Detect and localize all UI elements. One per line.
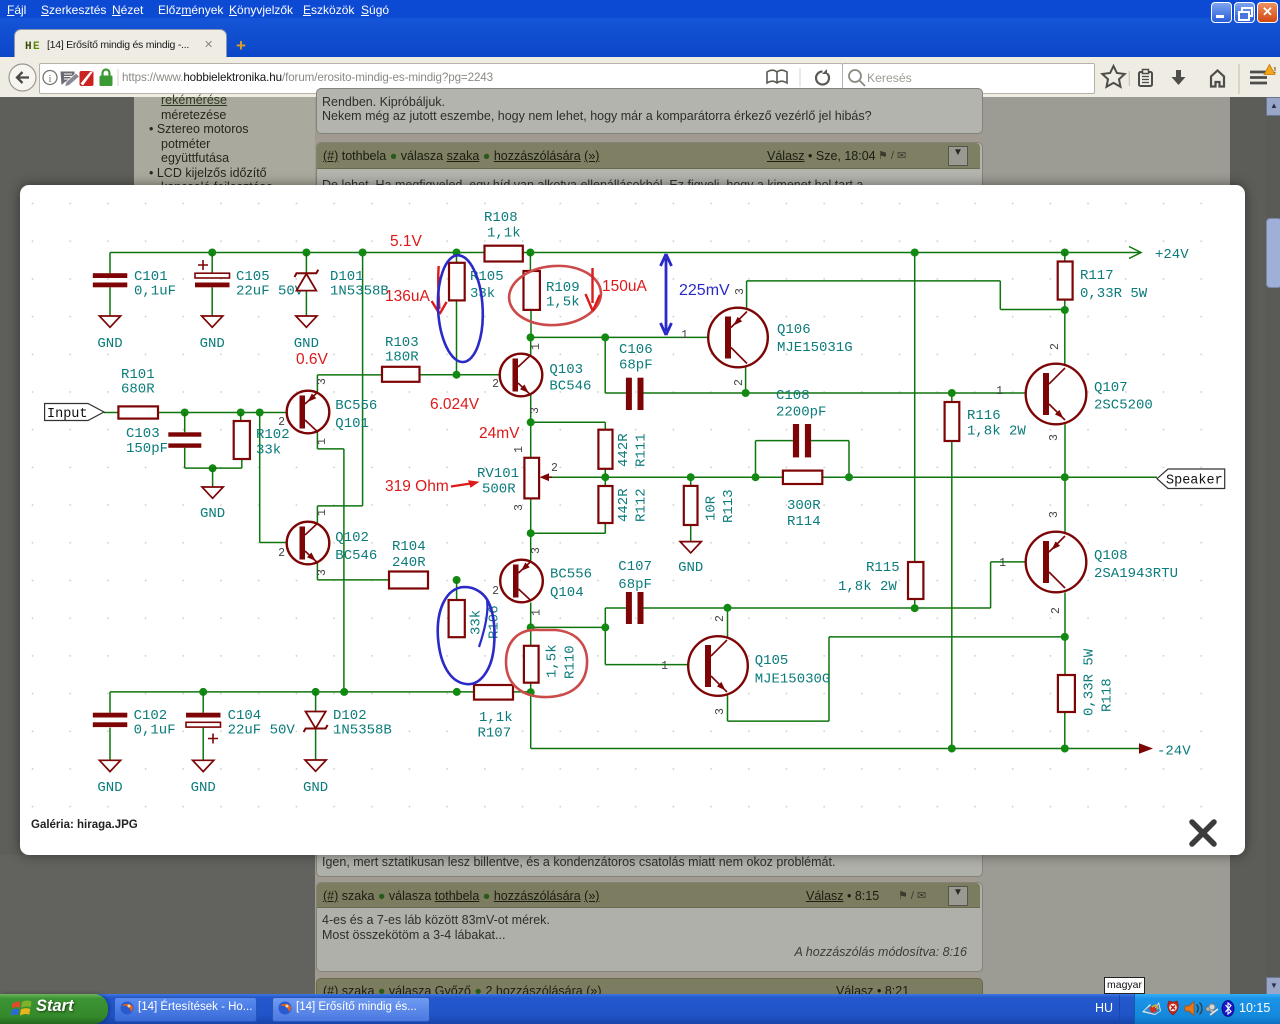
net label Speaker bbox=[1157, 469, 1225, 489]
capacitor C107 bbox=[618, 559, 652, 624]
svg-text:1: 1 bbox=[996, 385, 1003, 398]
junction dots R110 top net bbox=[527, 623, 535, 631]
svg-text:1: 1 bbox=[661, 660, 668, 673]
svg-text:BC556: BC556 bbox=[550, 567, 592, 583]
junction dots bottom rail bbox=[199, 688, 207, 696]
wire Q102 collector stub bbox=[316, 506, 318, 524]
wire line A rail to R115 bbox=[914, 253, 916, 563]
resistor R101 bbox=[118, 367, 158, 419]
resistor R106 bbox=[449, 580, 503, 639]
svg-text:180R: 180R bbox=[385, 350, 419, 366]
svg-text:2: 2 bbox=[733, 379, 746, 386]
resistor R102 bbox=[234, 413, 290, 460]
wire R113 bottom to GND bbox=[690, 525, 692, 542]
svg-text:0,33R 5W: 0,33R 5W bbox=[1080, 286, 1148, 302]
resistor R116 bbox=[945, 402, 1027, 441]
browser chrome bbox=[0, 0, 1280, 57]
zener diode D101 bbox=[295, 253, 389, 317]
svg-text:C106: C106 bbox=[619, 342, 653, 358]
resistor R114 bbox=[783, 471, 822, 530]
svg-text:2: 2 bbox=[714, 615, 727, 622]
svg-text:+24V: +24V bbox=[1155, 247, 1189, 263]
svg-text:22uF 50V: 22uF 50V bbox=[228, 723, 296, 739]
svg-text:2: 2 bbox=[1050, 607, 1063, 614]
svg-text:1N5358B: 1N5358B bbox=[333, 723, 392, 739]
transistor Q107 (2SC5200 NPN) bbox=[996, 343, 1153, 441]
svg-text:0,1uF: 0,1uF bbox=[134, 723, 176, 739]
svg-text:500R: 500R bbox=[482, 482, 516, 498]
svg-text:3: 3 bbox=[529, 407, 542, 414]
svg-text:3: 3 bbox=[714, 708, 727, 715]
scrollbar bbox=[1266, 97, 1280, 994]
wire R115 bottom lead bbox=[914, 599, 916, 608]
capacitor C101 bbox=[93, 253, 176, 317]
svg-text:68pF: 68pF bbox=[618, 577, 652, 593]
svg-text:1: 1 bbox=[531, 609, 544, 616]
transistor Q103 (BC546 NPN) bbox=[492, 343, 591, 414]
svg-text:0,33R 5W: 0,33R 5W bbox=[1082, 648, 1098, 716]
junction dot R116 top bbox=[948, 389, 956, 397]
svg-text:3: 3 bbox=[734, 288, 747, 295]
resistor R110 bbox=[524, 644, 579, 682]
wire Q105 emitter to Q108 collector bbox=[728, 637, 1065, 721]
svg-text:68pF: 68pF bbox=[619, 358, 653, 374]
annotation blue circle around R105 bbox=[435, 254, 485, 363]
junction dots R109 net bbox=[527, 333, 535, 341]
svg-text:1N5358B: 1N5358B bbox=[330, 284, 389, 300]
svg-text:442R: 442R bbox=[616, 488, 632, 522]
svg-text:10R: 10R bbox=[704, 495, 720, 521]
svg-text:0.6V: 0.6V bbox=[296, 351, 329, 368]
url bar icons bbox=[40, 63, 130, 92]
junction dot C103 gnd node bbox=[209, 464, 217, 472]
svg-text:R102: R102 bbox=[256, 427, 290, 443]
svg-text:2SC5200: 2SC5200 bbox=[1094, 398, 1153, 414]
svg-text:GND: GND bbox=[200, 336, 225, 352]
svg-text:2: 2 bbox=[551, 462, 558, 475]
ground below D102 bbox=[303, 760, 328, 796]
junction dot Q106 collector bbox=[742, 389, 750, 397]
svg-text:5.1V: 5.1V bbox=[390, 233, 423, 250]
wire R118 bottom bbox=[1064, 712, 1066, 749]
transistor Q101 (BC556 PNP) bbox=[278, 378, 377, 445]
svg-text:MJE15030G: MJE15030G bbox=[755, 672, 831, 688]
junction dot Q103 emitter node bbox=[527, 418, 535, 426]
bottom strip posts bbox=[316, 840, 983, 877]
svg-text:GND: GND bbox=[303, 780, 328, 796]
svg-text:1: 1 bbox=[513, 446, 526, 453]
search magnifier + placeholder bbox=[845, 66, 869, 90]
url text bbox=[122, 71, 493, 84]
svg-text:-24V: -24V bbox=[1157, 744, 1191, 760]
svg-text:Q102: Q102 bbox=[335, 530, 369, 546]
svg-text:2: 2 bbox=[278, 547, 285, 560]
svg-text:6.024V: 6.024V bbox=[430, 396, 480, 413]
wire rail to R103/Q102 vertical bbox=[317, 253, 362, 506]
junction dot R103 right node bbox=[453, 371, 461, 379]
wire Q102 base branch bbox=[260, 413, 298, 543]
toolbar right icons bbox=[1090, 55, 1280, 97]
svg-text:R107: R107 bbox=[478, 726, 512, 742]
resistor R113 bbox=[684, 486, 737, 525]
svg-text:1: 1 bbox=[316, 509, 329, 516]
wire C106 branch bbox=[605, 337, 745, 393]
resistor R108 bbox=[484, 210, 523, 262]
wire Q104 collector to R110 node bbox=[531, 603, 606, 646]
junction dots top rail bbox=[208, 249, 216, 257]
transistor Q106 (MJE15031G PNP) bbox=[681, 288, 853, 386]
svg-text:BC556: BC556 bbox=[335, 398, 377, 414]
svg-text:24mV: 24mV bbox=[479, 425, 520, 442]
svg-text:1,1k: 1,1k bbox=[487, 226, 521, 242]
junction dot R117 bottom bbox=[1061, 306, 1069, 314]
svg-text:22uF 50V: 22uF 50V bbox=[236, 284, 304, 300]
ground below C102 bbox=[97, 760, 122, 796]
wire R105 bottom bbox=[456, 300, 458, 374]
svg-text:33k: 33k bbox=[256, 443, 281, 459]
svg-text:2: 2 bbox=[1049, 343, 1062, 350]
reader + reload icons bbox=[762, 63, 840, 92]
wire driver net Q106-collector to Q107 base bbox=[746, 364, 1045, 393]
svg-text:C108: C108 bbox=[776, 388, 810, 404]
resistor R118 bbox=[1058, 648, 1116, 716]
wire +24V rail right segment with arrow bbox=[523, 252, 1141, 254]
svg-text:GND: GND bbox=[97, 336, 122, 352]
svg-text:3: 3 bbox=[530, 547, 543, 554]
wire C103 gnd node bbox=[185, 459, 242, 487]
junction dots speaker net bbox=[601, 473, 609, 481]
svg-text:3: 3 bbox=[1048, 434, 1061, 441]
window buttons bbox=[1211, 2, 1232, 23]
junction dot Q105 collector bbox=[724, 604, 732, 612]
svg-text:Speaker: Speaker bbox=[1166, 474, 1223, 489]
svg-text:R113: R113 bbox=[721, 489, 737, 523]
capacitor C103 bbox=[126, 413, 201, 469]
url field bbox=[39, 63, 843, 94]
active tab bbox=[14, 29, 227, 58]
svg-text:150pF: 150pF bbox=[126, 441, 168, 457]
wire C107 left vertical bbox=[604, 608, 606, 665]
svg-text:0,1uF: 0,1uF bbox=[134, 284, 176, 300]
back button bbox=[6, 60, 42, 96]
svg-text:R116: R116 bbox=[967, 408, 1001, 424]
annotation red arrow at R109 bbox=[591, 268, 593, 303]
svg-text:1,5k: 1,5k bbox=[545, 644, 561, 678]
transistor Q105 (MJE15030G NPN) bbox=[661, 615, 830, 715]
annotation red arrow at R105 bbox=[438, 266, 439, 309]
capacitor C102 bbox=[93, 692, 176, 760]
wire R117 bottom to Q107 bbox=[1064, 300, 1066, 368]
wire -24V rail with arrow bbox=[531, 748, 1139, 750]
svg-text:Q101: Q101 bbox=[335, 416, 369, 432]
svg-text:R111: R111 bbox=[634, 433, 650, 467]
resistor R111 bbox=[598, 430, 649, 469]
transistor Q102 (BC546 NPN) bbox=[278, 509, 377, 576]
svg-text:1: 1 bbox=[999, 557, 1006, 570]
svg-text:BC546: BC546 bbox=[335, 548, 377, 564]
resistor R117 bbox=[1058, 253, 1148, 303]
svg-text:2: 2 bbox=[278, 416, 285, 429]
wire bottom rail bbox=[110, 691, 531, 693]
net label Input bbox=[45, 404, 104, 423]
svg-text:240R: 240R bbox=[392, 555, 426, 571]
transistor Q108 (2SA1943 PNP) bbox=[999, 511, 1178, 614]
wire R103 right to Q103 base bbox=[420, 374, 515, 376]
transistor Q104 (BC556 PNP) bbox=[492, 547, 592, 616]
resistor R112 bbox=[598, 486, 649, 523]
top post area bbox=[316, 88, 983, 134]
resistor R115 bbox=[838, 560, 923, 599]
svg-text:C107: C107 bbox=[618, 559, 652, 575]
annotation blue circle around R106 bbox=[438, 587, 495, 684]
potentiometer RV101 bbox=[477, 446, 558, 511]
svg-text:1,5k: 1,5k bbox=[546, 295, 580, 311]
svg-text:R117: R117 bbox=[1080, 268, 1114, 284]
svg-text:Q105: Q105 bbox=[755, 653, 789, 669]
ground below C104 bbox=[191, 760, 216, 796]
search field bbox=[842, 63, 1095, 94]
svg-text:150uA: 150uA bbox=[602, 278, 647, 295]
svg-text:2200pF: 2200pF bbox=[776, 405, 826, 421]
svg-text:GND: GND bbox=[294, 336, 319, 352]
wire Q101 emitter to R103 bbox=[317, 375, 382, 393]
svg-text:Q107: Q107 bbox=[1094, 380, 1128, 396]
lightbox bbox=[20, 185, 1245, 855]
capacitor C108 bbox=[776, 388, 826, 457]
wire RV101 bottom node to Q104 emitter bbox=[531, 498, 606, 562]
capacitor C104 (electrolytic) bbox=[186, 692, 295, 760]
annotation red circle around R110 bbox=[506, 630, 587, 697]
svg-text:3: 3 bbox=[1048, 511, 1061, 518]
annotation blue measure arrow 225mV bbox=[665, 258, 668, 331]
wire R109 net to Q106 base bbox=[531, 311, 726, 338]
capacitor C106 bbox=[619, 342, 653, 410]
ground below C105 bbox=[200, 316, 225, 352]
svg-text:R114: R114 bbox=[787, 514, 821, 530]
svg-text:1: 1 bbox=[316, 438, 329, 445]
svg-text:GND: GND bbox=[97, 780, 122, 796]
wire input node bbox=[104, 412, 300, 414]
junction dot Q104 base node bbox=[453, 576, 461, 584]
svg-text:2: 2 bbox=[492, 585, 499, 598]
svg-text:1,1k: 1,1k bbox=[479, 710, 513, 726]
wire R113 top lead bbox=[690, 477, 692, 486]
svg-text:R108: R108 bbox=[484, 210, 518, 226]
svg-text:R104: R104 bbox=[392, 539, 426, 555]
svg-text:3: 3 bbox=[513, 504, 526, 511]
svg-text:1,8k 2W: 1,8k 2W bbox=[838, 579, 897, 595]
svg-text:225mV: 225mV bbox=[679, 282, 730, 299]
svg-text:GND: GND bbox=[678, 560, 703, 576]
wire R116 top to driver net bbox=[951, 393, 953, 402]
wire +24V rail left segment bbox=[110, 252, 485, 254]
wire Q106 emitter corner to R117 bottom bbox=[747, 281, 1065, 311]
svg-text:RV101: RV101 bbox=[477, 466, 519, 482]
wire R116 bottom to -24V rail bbox=[951, 441, 953, 749]
svg-text:33k: 33k bbox=[469, 610, 485, 635]
svg-text:MJE15031G: MJE15031G bbox=[777, 340, 853, 356]
svg-text:2SA1943RTU: 2SA1943RTU bbox=[1094, 566, 1178, 582]
junction dot RV101 bottom node bbox=[527, 529, 535, 537]
tooltip magyar bbox=[1104, 977, 1145, 994]
svg-text:2: 2 bbox=[492, 378, 499, 391]
wire speaker net right bbox=[822, 476, 1157, 478]
ground below D101 bbox=[294, 316, 319, 352]
svg-text:3: 3 bbox=[316, 378, 329, 385]
ground below C101 bbox=[97, 316, 122, 352]
svg-text:GND: GND bbox=[191, 780, 216, 796]
svg-text:R118: R118 bbox=[1100, 678, 1116, 712]
svg-text:Q103: Q103 bbox=[549, 362, 583, 378]
junction dot R115 bottom bbox=[911, 604, 919, 612]
resistor R105 bbox=[449, 253, 504, 303]
svg-text:3: 3 bbox=[316, 569, 329, 576]
svg-text:BC546: BC546 bbox=[549, 379, 591, 395]
svg-text:319 Ohm: 319 Ohm bbox=[385, 478, 449, 495]
wire Q105 collector stub bbox=[727, 608, 729, 639]
svg-text:C103: C103 bbox=[126, 426, 160, 442]
ground below R113 bbox=[678, 542, 703, 576]
svg-text:680R: 680R bbox=[121, 382, 155, 398]
wire Q101 collector to bottom rail bbox=[317, 432, 344, 692]
resistor R109 bbox=[524, 253, 580, 311]
wire Q107 emitter / Q108 emitter vertical bbox=[1064, 424, 1066, 532]
svg-text:1: 1 bbox=[530, 343, 543, 350]
svg-text:Q104: Q104 bbox=[550, 585, 584, 601]
wire R111 leads bbox=[604, 422, 606, 477]
resistor R104 bbox=[389, 539, 428, 589]
zener diode D102 bbox=[304, 692, 392, 760]
svg-text:R110: R110 bbox=[563, 645, 579, 679]
menu bar items bbox=[0, 3, 1280, 17]
svg-text:1,8k 2W: 1,8k 2W bbox=[967, 424, 1026, 440]
junction dot Q108 collector node bbox=[1061, 633, 1069, 641]
wire Q108 collector to R118 bbox=[1064, 593, 1066, 676]
wire speaker net left bbox=[541, 476, 783, 478]
svg-text:R115: R115 bbox=[866, 560, 900, 576]
wire C108 leads bbox=[756, 441, 850, 478]
svg-text:136uA: 136uA bbox=[385, 288, 430, 305]
junction dots input node bbox=[181, 409, 189, 417]
wire Q103 collector stub bbox=[530, 337, 532, 356]
wire Q102 emitter to R104 bbox=[317, 562, 389, 580]
sidebar list (dimmed) bbox=[137, 93, 312, 185]
resistor R103 bbox=[382, 335, 420, 382]
svg-text:Input: Input bbox=[47, 407, 88, 422]
wire R110 bottom to -24V rail bbox=[530, 683, 532, 749]
resistor R107 bbox=[474, 685, 513, 742]
wire Q105 base bbox=[605, 664, 704, 666]
svg-text:442R: 442R bbox=[616, 433, 632, 467]
taskbar bbox=[0, 994, 1280, 1024]
junction dots -24V rail bbox=[948, 745, 956, 753]
post 2 with green header bbox=[316, 142, 983, 274]
svg-text:1: 1 bbox=[681, 329, 688, 342]
svg-text:GND: GND bbox=[200, 506, 225, 522]
nav toolbar bbox=[0, 57, 1280, 98]
capacitor C105 (electrolytic) bbox=[195, 253, 304, 317]
wire R112 leads bbox=[604, 477, 606, 533]
new tab button bbox=[236, 36, 246, 56]
annotation red circle around R109 bbox=[507, 263, 603, 328]
wire Q103 emitter node bbox=[531, 395, 606, 458]
ground below C103 bbox=[200, 487, 225, 522]
svg-text:R112: R112 bbox=[634, 488, 650, 522]
svg-text:300R: 300R bbox=[787, 498, 821, 514]
svg-text:Q108: Q108 bbox=[1094, 548, 1128, 564]
wire C107 net to Q108 base bbox=[605, 562, 1044, 608]
svg-text:Q106: Q106 bbox=[777, 322, 811, 338]
